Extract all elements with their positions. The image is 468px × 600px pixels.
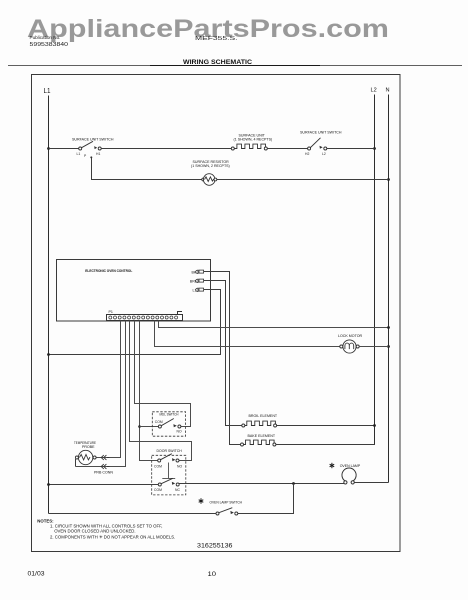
svg-text:(1 SHOWN, 4 RECPTS): (1 SHOWN, 4 RECPTS) [234, 138, 273, 142]
wire bake to L2 [276, 444, 375, 446]
svg-text:L1: L1 [77, 152, 81, 156]
L1 rail [48, 96, 50, 514]
wire v2 P1 to probe pin2 [76, 321, 126, 467]
svg-text:WIRING SCHEMATIC: WIRING SCHEMATIC [183, 59, 252, 66]
oven lamp switch S5 [216, 508, 238, 515]
svg-text:MEF355.S.: MEF355.S. [195, 36, 238, 42]
wire S1 pole drop [92, 158, 203, 180]
svg-text:316255136: 316255136 [197, 543, 233, 550]
probe connector arrow pin2 [101, 464, 109, 469]
outer border box [32, 75, 401, 552]
EOC terminal BRL [190, 279, 204, 283]
door switch link bar [162, 463, 175, 479]
svg-text:OVEN DOOR CLOSED AND UNLOCKED.: OVEN DOOR CLOSED AND UNLOCKED. [54, 528, 135, 533]
wire v5 P1 to MDL COM and door COM [140, 321, 159, 461]
svg-text:PRB CONN: PRB CONN [94, 471, 113, 475]
svg-text:Publication No.: Publication No. [30, 35, 61, 40]
junction dot N row2 [387, 178, 390, 181]
wire lock motor to N [359, 346, 388, 348]
oven lamp LP1 [342, 468, 356, 484]
svg-text:P: P [84, 154, 87, 158]
svg-text:10: 10 [208, 572, 217, 578]
junction dot MDL COM [138, 425, 141, 428]
resistor surface element R1 [202, 174, 217, 186]
svg-text:DOOR SWITCH: DOOR SWITCH [157, 449, 183, 453]
wire v6 P1 to lock motor [155, 321, 341, 347]
svg-text:L2: L2 [371, 88, 377, 94]
svg-text:COM: COM [154, 464, 162, 468]
svg-text:BAKE ELEMENT: BAKE ELEMENT [248, 434, 276, 438]
L2 rail [374, 95, 376, 445]
notes text [37, 518, 175, 539]
wire BK to bake element [204, 272, 241, 445]
svg-text:2. COMPONENTS WITH ✳ DO NOT: 2. COMPONENTS WITH ✳ DO NOT APPEAR ON AL… [50, 535, 175, 540]
resistor surface unit element [231, 144, 267, 150]
wire row2 to N [217, 179, 389, 181]
svg-text:NC: NC [175, 488, 180, 492]
MDL switch dashed box [152, 412, 185, 436]
wire broil to L2 [277, 425, 375, 427]
svg-text:BROIL ELEMENT: BROIL ELEMENT [249, 414, 278, 418]
switch S2 surface unit switch [308, 138, 327, 150]
junction dot L1 bottom [47, 483, 50, 486]
wire v7 P1 to N [159, 321, 389, 328]
svg-text:SURFACE UNIT SWITCH: SURFACE UNIT SWITCH [72, 138, 114, 142]
svg-text:NO: NO [177, 464, 182, 468]
svg-text:L1: L1 [44, 86, 51, 95]
publication number text [30, 35, 69, 48]
switch S1 surface unit switch [79, 141, 102, 158]
svg-text:SURFACE UNIT SWITCH: SURFACE UNIT SWITCH [300, 130, 342, 134]
EOC electronic oven control box U1 [57, 260, 211, 322]
junction dot N y327 [387, 326, 390, 329]
wire MDL COM branch [140, 426, 159, 428]
resistor broil element [242, 421, 277, 427]
junction dot L2 row1 [373, 147, 376, 150]
resistor bake element [241, 440, 277, 446]
wire v4 P1 to MDL switch NO [135, 321, 191, 427]
door switch S4 upper pole [158, 454, 179, 462]
svg-text:OVEN LAMP SWITCH: OVEN LAMP SWITCH [210, 501, 243, 505]
wire lamp switch branch [238, 484, 294, 514]
svg-text:L2: L2 [322, 152, 326, 156]
wire door NC to oven lamp [179, 483, 345, 485]
svg-text:NO: NO [177, 430, 182, 434]
temperature probe RT1 [75, 450, 96, 464]
switch S2 terminal labels [305, 152, 326, 156]
probe connector arrow pin1 [101, 455, 109, 460]
door switch S4 lower pole [158, 478, 179, 486]
svg-text:SURFACE RESISTOR: SURFACE RESISTOR [193, 160, 230, 164]
svg-text:LOCK MOTOR: LOCK MOTOR [338, 334, 362, 338]
title underline [8, 65, 462, 67]
svg-text:ELECTRONIC OVEN CONTROL: ELECTRONIC OVEN CONTROL [85, 269, 133, 273]
wire EOC L1 terminal to L1 rail [49, 290, 221, 355]
svg-text:P1: P1 [109, 310, 113, 314]
svg-text:H1: H1 [96, 152, 100, 156]
junction dot L2 broil [373, 424, 376, 427]
door switch dashed box [152, 455, 186, 495]
svg-text:OVEN LAMP: OVEN LAMP [340, 464, 361, 468]
wire BRL to broil element [204, 281, 242, 426]
MDL switch S3 [158, 419, 181, 429]
wire row1 mid [101, 148, 231, 150]
svg-text:MDL SWITCH: MDL SWITCH [160, 413, 179, 417]
EOC terminal L1 [193, 288, 204, 293]
svg-text:5995383840: 5995383840 [30, 42, 69, 48]
svg-text:PROBE: PROBE [82, 445, 95, 449]
svg-text:01/03: 01/03 [28, 572, 46, 578]
wire lamp switch to L1 rail [49, 513, 217, 515]
junction dot N lock motor [387, 345, 390, 348]
junction dot lamp switch tap [292, 482, 295, 485]
wire L1 rail to door switch COM [49, 484, 159, 486]
wire row1 mid2 [267, 148, 308, 150]
svg-text:COM: COM [155, 420, 163, 424]
connector P1 strip [107, 310, 183, 320]
wire v3 P1 to door switch NO [130, 321, 192, 461]
svg-text:N: N [386, 88, 390, 94]
oven lamp label with asterisk [330, 463, 335, 468]
svg-text:COM: COM [154, 488, 162, 492]
switch S1 terminal labels [77, 152, 101, 158]
N rail [388, 95, 390, 483]
svg-text:(1 SHOWN, 2 RECPTS): (1 SHOWN, 2 RECPTS) [191, 164, 230, 168]
junction dot L1 row1 [47, 147, 50, 150]
svg-text:H2: H2 [305, 152, 309, 156]
wire row1 left [49, 148, 80, 150]
wire N rail to oven lamp [354, 482, 388, 484]
junction dot L1 rail y355 [47, 353, 50, 356]
EOC terminal BK [192, 270, 204, 274]
lock motor M1 [340, 340, 359, 353]
wire v1 P1 to probe pin1 [96, 321, 121, 458]
wire row1 right [327, 148, 375, 150]
wire probe left loop [75, 459, 77, 467]
oven lamp switch label with asterisk [199, 498, 204, 503]
